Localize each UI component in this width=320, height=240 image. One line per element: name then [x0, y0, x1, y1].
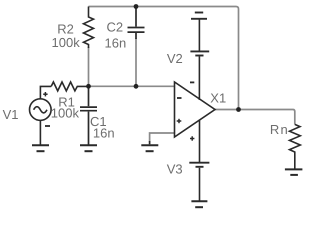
svg-text:100k: 100k — [51, 105, 80, 120]
svg-text:V1: V1 — [3, 107, 19, 122]
node A junction dot — [86, 84, 91, 89]
op-amp X1 — [175, 82, 216, 137]
X1 supply plus mark — [190, 136, 194, 140]
svg-text:X1: X1 — [210, 91, 226, 106]
junction dot output node — [236, 107, 241, 112]
wire R2 bottom lead to node A — [88, 47, 90, 86]
resistor R1 — [51, 82, 88, 91]
svg-text:V3: V3 — [167, 162, 183, 177]
source V1 — [30, 86, 52, 145]
wire non-inverting input to ground — [150, 133, 175, 142]
battery V2 — [190, 13, 209, 101]
svg-text:C2: C2 — [107, 20, 124, 35]
capacitor C2 — [128, 7, 145, 40]
resistor R2 — [84, 7, 94, 49]
wire inverting-input net (node A to op-amp) — [89, 85, 175, 87]
svg-text:Rn: Rn — [270, 122, 289, 137]
X1 supply minus mark — [190, 81, 194, 83]
wire C2 bottom lead to node A wire — [135, 38, 137, 86]
ground (Rn) — [285, 169, 303, 175]
svg-text:V2: V2 — [167, 51, 183, 66]
V1 plus mark — [43, 92, 47, 96]
ground (non-inverting input) — [141, 141, 158, 151]
battery V3 — [189, 120, 209, 202]
node B junction dot (C2 / inverting input) — [134, 84, 139, 89]
X1 input minus mark — [177, 97, 182, 99]
resistor Rn — [290, 124, 301, 169]
X1 input plus mark — [177, 119, 182, 123]
ground (C1) — [80, 145, 97, 151]
svg-text:100k: 100k — [52, 35, 81, 50]
capacitor C1 — [80, 86, 97, 145]
wire top feedback rail from R2 top to output node — [89, 7, 239, 110]
junction dot C2 top on rail — [134, 4, 139, 9]
svg-text:16n: 16n — [105, 36, 127, 51]
V1 minus mark — [45, 125, 50, 127]
ground (V1) — [32, 145, 49, 151]
wire output to Rn — [215, 110, 295, 125]
svg-text:16n: 16n — [93, 125, 115, 140]
ground (V3) — [191, 201, 207, 207]
